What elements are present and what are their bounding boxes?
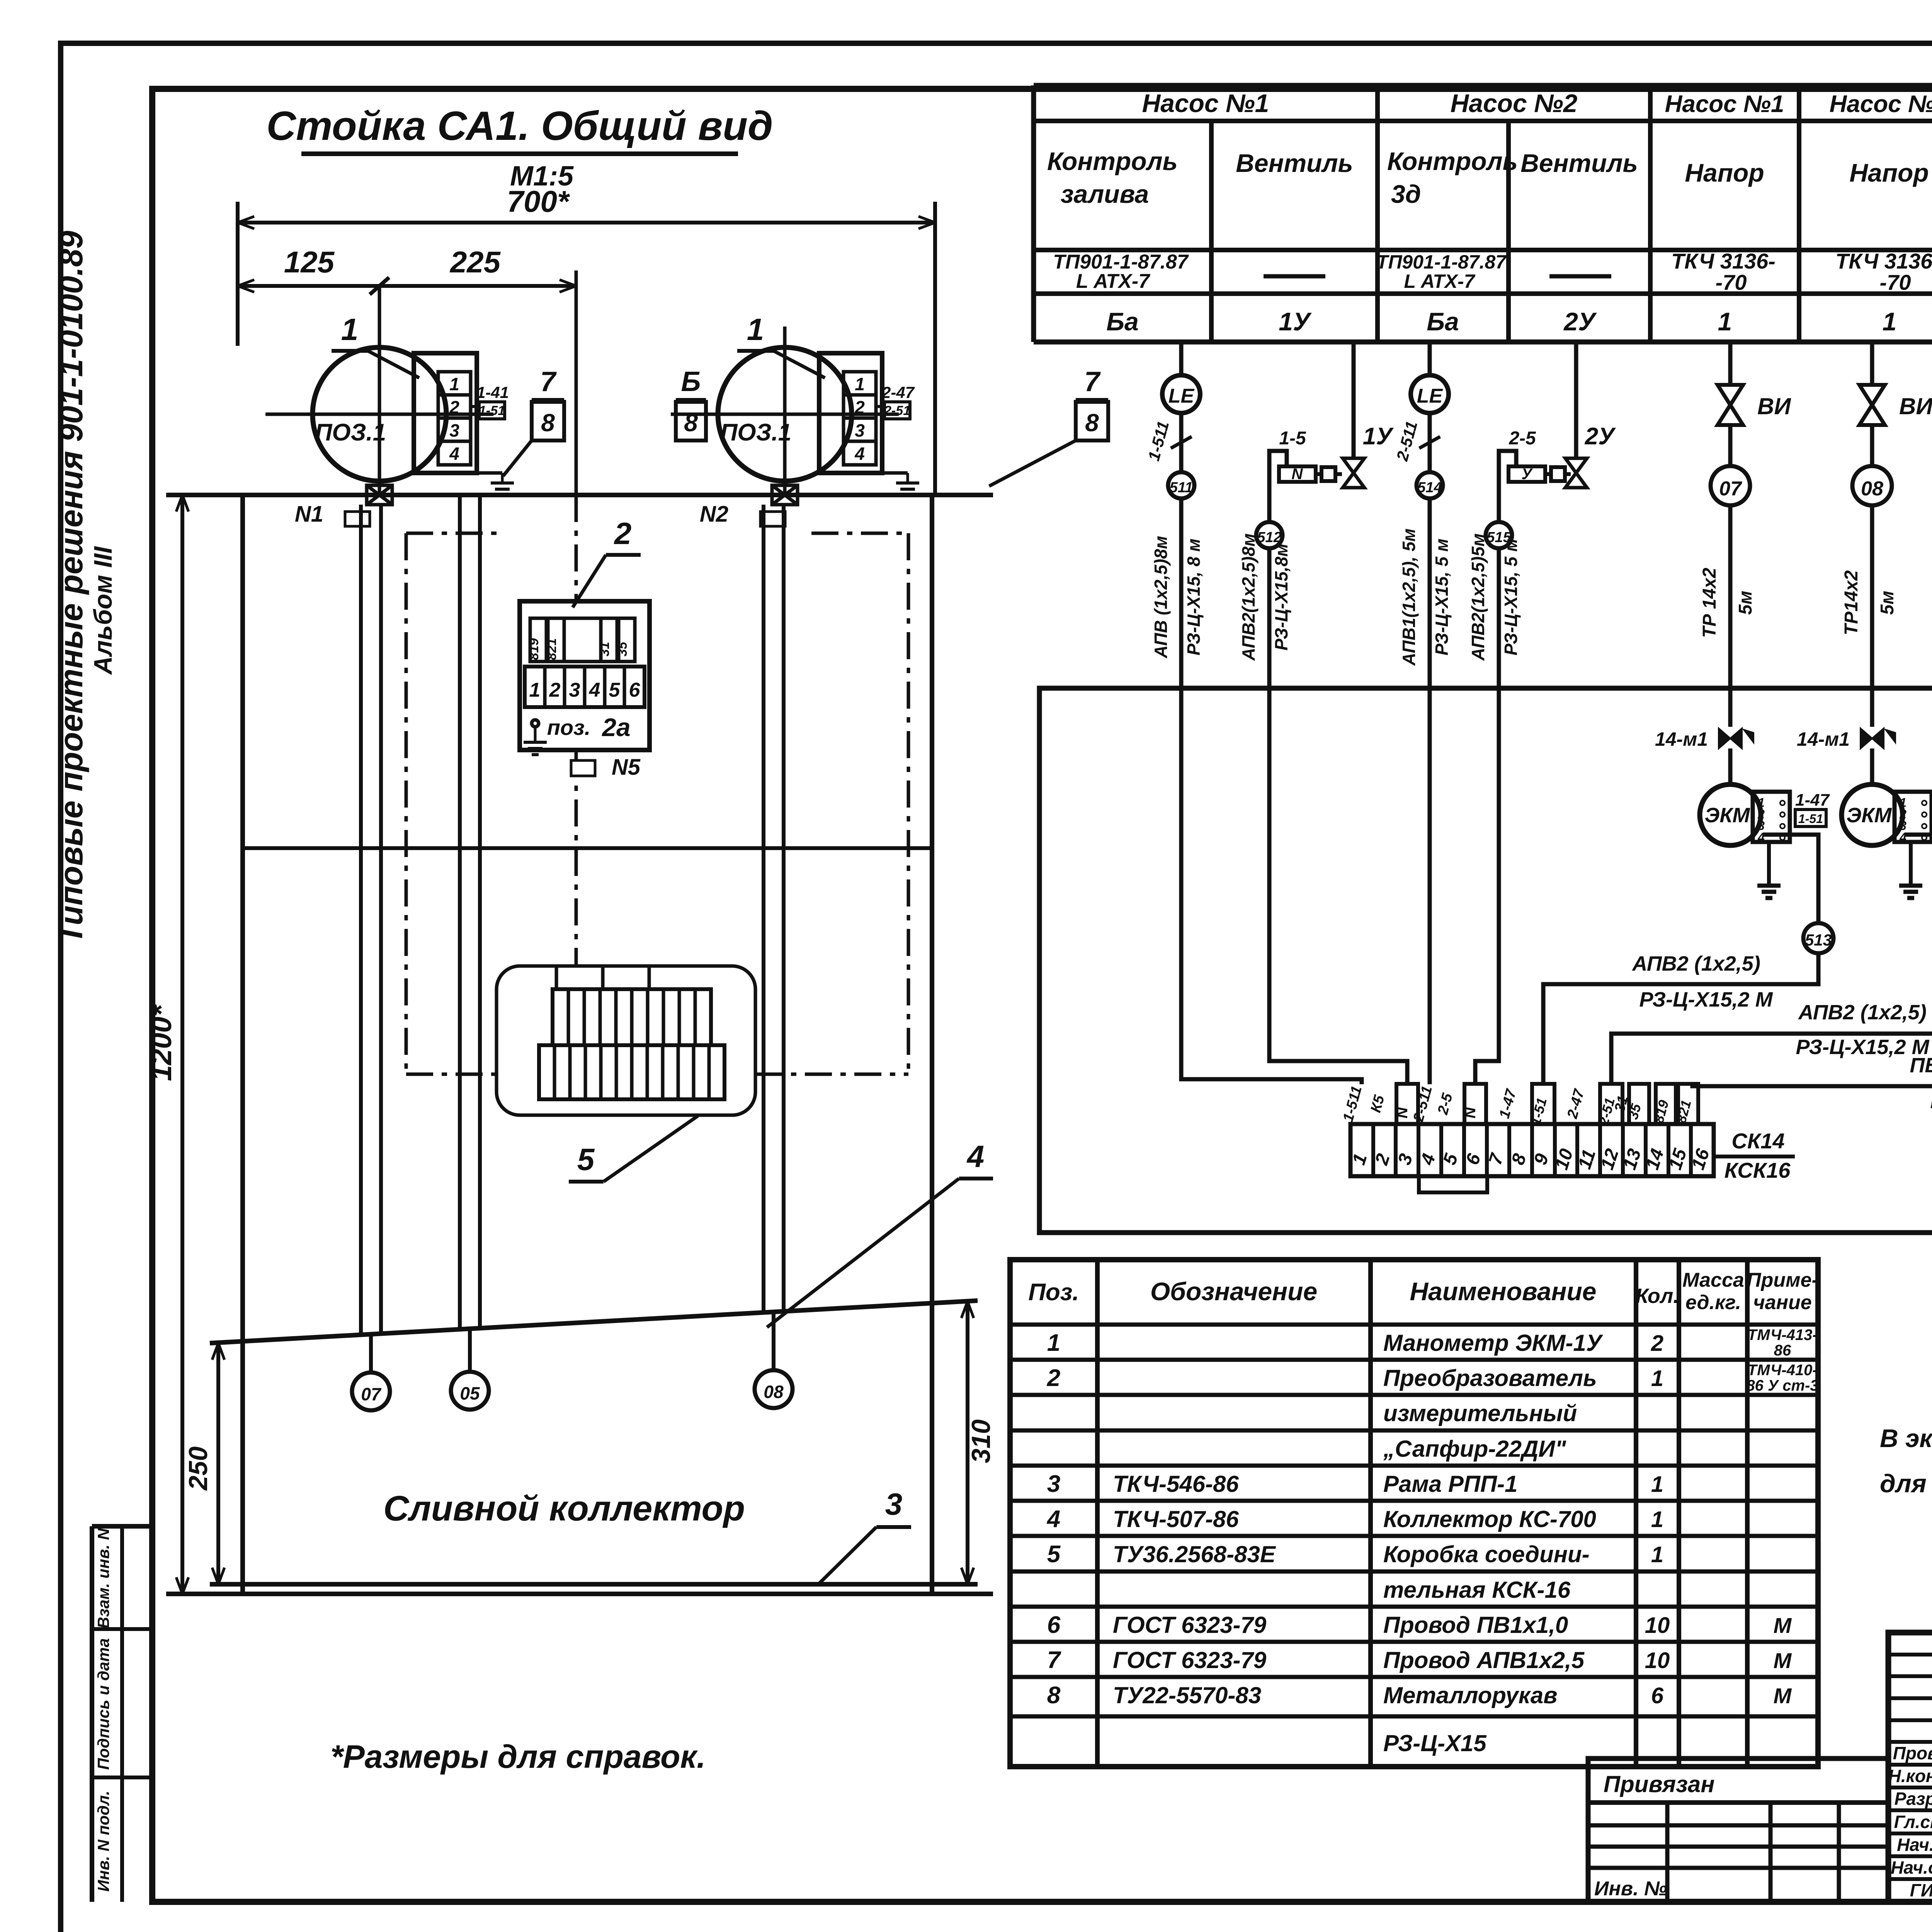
svg-text:ГОСТ 6323-79: ГОСТ 6323-79 [1113,1647,1267,1673]
dash-dot route left [405,533,408,1074]
pressure gauge ЭКМ pos.1 at x=2031 [718,347,852,481]
junction box KCK-16 [497,966,755,1115]
svg-text:АПВ1(1x2,5), 5м: АПВ1(1x2,5), 5м [1399,529,1419,666]
mount symbol [367,485,392,505]
svg-text:ПОЗ.1: ПОЗ.1 [720,419,791,446]
svg-text:В экспликации представлены: В экспликации представлены изделия и мат… [1880,1424,1932,1452]
node 08 [1852,466,1892,505]
svg-text:1: 1 [1651,1542,1663,1567]
gauge terminal box [414,353,477,473]
junction box comb upper [553,989,711,1045]
svg-text:N: N [1394,1107,1411,1118]
svg-text:АПВ2 (1x2,5): АПВ2 (1x2,5) [1798,1001,1927,1024]
callout 7/8 gauge2 [1076,398,1108,402]
gauge ground [477,471,502,475]
svg-text:L АТХ-7: L АТХ-7 [1076,270,1150,293]
svg-text:1: 1 [341,312,359,347]
svg-text:Напор: Напор [1849,158,1929,187]
svg-text:2: 2 [549,679,561,701]
svg-text:5м: 5м [1735,591,1756,615]
svg-text:РЗ-Ц-Х15,8м: РЗ-Ц-Х15,8м [1271,544,1291,651]
svg-text:7: 7 [1084,366,1101,397]
pos2a ground [532,720,539,727]
svg-text:чание: чание [1753,1291,1811,1314]
svg-text:310: 310 [966,1419,996,1463]
svg-text:250: 250 [184,1446,213,1491]
svg-text:ГИП: ГИП [1910,1880,1932,1900]
tap circle 07 [369,1335,373,1372]
svg-text:Вентиль: Вентиль [1236,149,1353,177]
svg-text:6: 6 [1651,1683,1664,1708]
svg-text:LE: LE [1168,385,1195,407]
svg-text:поз.: поз. [547,715,591,740]
svg-text:Металлорукав: Металлорукав [1383,1682,1558,1708]
svg-text:31: 31 [597,642,612,656]
transducer pos.2a box [520,601,650,750]
svg-text:5: 5 [577,1142,595,1177]
svg-text:ЭКМ: ЭКМ [1847,804,1892,827]
svg-text:Насос №2: Насос №2 [1830,91,1932,117]
signature rows [1888,1740,1932,1744]
title block top small grid [1888,1653,1932,1656]
collector top sloped line [210,1301,978,1343]
ЭКМ ground [1909,842,1913,885]
wire 511 to strip [1181,498,1362,1084]
vertical dimension 250 [216,1343,220,1584]
pipe pair middle down [458,495,462,1330]
svg-text:М: М [1774,1613,1792,1638]
node 513 [1803,923,1833,953]
svg-text:8: 8 [541,409,555,437]
svg-text:ТР 14x2: ТР 14x2 [1699,568,1720,638]
svg-text:1: 1 [855,374,865,394]
mount symbol [772,485,798,505]
svg-text:N: N [1292,466,1303,483]
svg-text:-70: -70 [1716,270,1747,294]
parts list table [1010,1260,1818,1767]
wire to node 516 [1905,835,1932,923]
svg-text:Б: Б [681,366,701,397]
svg-text:У: У [1521,466,1533,483]
svg-text:ТКЧ-546-86: ТКЧ-546-86 [1113,1471,1239,1497]
pos2a upper terminal boxes [530,618,546,662]
svg-text:N1: N1 [295,502,323,527]
svg-text:ТМЧ-413-: ТМЧ-413- [1747,1327,1817,1344]
svg-text:14-м1: 14-м1 [1797,728,1850,750]
svg-text:1: 1 [747,312,764,347]
tap circle 08 [772,1313,776,1370]
junction box comb lower [539,1045,724,1099]
svg-text:Нач.отд: Нач.отд [1891,1857,1932,1878]
svg-text:Поз.: Поз. [1028,1279,1079,1306]
svg-text:РЗ-Ц-Х15, 8 м: РЗ-Ц-Х15, 8 м [1184,539,1204,655]
wire 513 to strip [1543,953,1818,1084]
svg-text:ПОЗ.1: ПОЗ.1 [315,419,386,446]
svg-text:3: 3 [449,420,459,440]
svg-text:АПВ2(1x2,5)5м: АПВ2(1x2,5)5м [1468,533,1488,661]
pipe pair gauge1 down [359,505,363,1335]
svg-text:35: 35 [615,641,630,656]
node 511 [1168,472,1194,498]
svg-text:РЗ-Ц-Х15, 5 м: РЗ-Ц-Х15, 5 м [1501,539,1521,655]
svg-text:ТУ22-5570-83: ТУ22-5570-83 [1113,1682,1261,1708]
svg-text:РЗ-Ц-Х15, 5 м: РЗ-Ц-Х15, 5 м [1432,539,1452,655]
wire 515 to strip [1475,548,1499,1084]
node 512 [1256,522,1282,548]
svg-text:ТУ36.2568-83Е: ТУ36.2568-83Е [1113,1541,1276,1567]
svg-text:Наименование: Наименование [1410,1277,1597,1306]
svg-text:АПВ (1x2,5)8м: АПВ (1x2,5)8м [1151,536,1171,659]
svg-text:*Размеры для справок.: *Размеры для справок. [330,1738,706,1775]
svg-text:ТКЧ 3136-: ТКЧ 3136- [1835,249,1932,273]
svg-text:4: 4 [966,1139,985,1173]
node 514 [1417,472,1443,498]
svg-text:ТКЧ-507-86: ТКЧ-507-86 [1113,1506,1239,1532]
svg-text:1: 1 [1651,1507,1663,1532]
svg-text:4: 4 [589,679,600,701]
svg-text:-70: -70 [1880,270,1911,294]
svg-text:07: 07 [361,1384,382,1404]
ЭКМ ground [1767,842,1771,885]
svg-text:АПВ2 (1x2,5): АПВ2 (1x2,5) [1631,952,1760,975]
svg-text:2: 2 [449,397,459,417]
svg-text:1: 1 [449,374,459,394]
wire to node 513 [1763,835,1818,923]
level sensor LE2 [1428,342,1432,375]
callout Б/8 gauge2 [676,398,706,402]
dash-dot route right [907,533,910,1074]
valve 2У [1574,342,1578,458]
svg-text:ТП901-1-87.87: ТП901-1-87.87 [1376,251,1507,273]
svg-text:Гл.спец: Гл.спец [1894,1812,1932,1832]
svg-text:Напор: Напор [1685,158,1764,187]
svg-text:6: 6 [629,679,641,701]
pressure gauge ЭКМ pos.1 at x=982 [313,347,446,481]
svg-text:РЗ-Ц-Х15,2 М: РЗ-Ц-Х15,2 М [1639,988,1773,1011]
svg-text:1-41: 1-41 [476,383,509,401]
terminal strip СК14 [1350,1124,1714,1176]
svg-text:ПВ4 (1x1): ПВ4 (1x1) [1910,1054,1932,1077]
svg-text:Провод АПВ1х2,5: Провод АПВ1х2,5 [1383,1647,1585,1673]
svg-text:М: М [1774,1684,1792,1708]
svg-text:Привязан: Привязан [1604,1771,1714,1797]
svg-text:1-51: 1-51 [1798,812,1823,826]
svg-text:Манометр ЭКМ-1У: Манометр ЭКМ-1У [1383,1330,1604,1356]
svg-text:Преобразователь: Преобразователь [1383,1365,1597,1391]
panel left edge [240,495,245,1594]
svg-text:4: 4 [449,444,459,464]
svg-text:СК14: СК14 [1731,1129,1784,1153]
level sensor LE1 [1179,342,1184,375]
svg-text:измерительный: измерительный [1383,1400,1577,1426]
svg-text:2У: 2У [1585,423,1616,450]
svg-text:Масса: Масса [1682,1269,1744,1291]
valve ВИ at x=4845 [1870,342,1874,385]
svg-text:2-51: 2-51 [884,403,910,418]
valve 14-м1 [1861,728,1884,748]
strip bottom bracket [1419,1176,1487,1192]
panel centerline [575,270,578,495]
branch 2-5 with У box [1499,451,1516,522]
svg-text:1: 1 [1883,307,1897,336]
svg-text:2: 2 [614,516,632,551]
svg-text:АПВ2(1x2,5)8м: АПВ2(1x2,5)8м [1238,533,1259,661]
svg-text:7: 7 [540,366,557,397]
svg-text:3д: 3д [1391,180,1421,208]
stand enclosure box [1039,688,1932,1233]
svg-text:Альбом III: Альбом III [88,546,117,675]
svg-text:Инв. №: Инв. № [1594,1878,1667,1900]
svg-text:1200*: 1200* [145,1004,177,1081]
pos2a terminal row 1-6 [525,667,645,707]
svg-text:2: 2 [1047,1365,1060,1391]
node 515 [1486,522,1512,548]
collector bottom line [210,1582,978,1587]
svg-text:512: 512 [1257,529,1281,546]
valve ВИ at x=4478 [1728,342,1733,385]
bottom-left margin strip [90,1526,94,1902]
svg-text:ТКЧ 3136-: ТКЧ 3136- [1671,249,1776,273]
svg-text:Нач.гр.: Нач.гр. [1897,1835,1932,1855]
svg-text:КСК16: КСК16 [1725,1158,1791,1182]
svg-text:821: 821 [544,638,559,660]
svg-text:1У: 1У [1363,423,1394,450]
svg-text:РЗ-Ц-Х15-2М: РЗ-Ц-Х15-2М [1930,1090,1932,1113]
svg-text:2: 2 [1651,1331,1663,1356]
svg-text:N5: N5 [612,755,641,780]
svg-text:8: 8 [1085,409,1099,437]
svg-text:511: 511 [1170,480,1193,496]
svg-text:ГОСТ 6323-79: ГОСТ 6323-79 [1113,1612,1267,1638]
svg-text:Типовые проектные решения 9: Типовые проектные решения 901-1-0100.89 [53,231,89,944]
svg-text:4: 4 [1899,830,1906,844]
node N5 [571,760,595,776]
svg-text:ТМЧ-410-: ТМЧ-410- [1747,1362,1817,1379]
tap circle 05 [468,1330,472,1372]
svg-text:Ба: Ба [1427,307,1459,336]
svg-text:10: 10 [1645,1613,1670,1638]
svg-text:5: 5 [609,679,621,701]
callout 7/8 gauge1 [532,398,564,402]
svg-text:Подпись и дата: Подпись и дата [94,1638,112,1770]
svg-text:Н.контр.: Н.контр. [1888,1766,1932,1786]
strip name СК14/КСК16 [1716,1155,1795,1158]
svg-text:86: 86 [1774,1342,1791,1359]
vertical dimension 310 [966,1301,969,1584]
svg-text:Разраб.: Разраб. [1895,1789,1932,1809]
title block frame [1888,1633,1932,1902]
svg-text:N: N [1462,1107,1479,1118]
gauge terminal box [819,353,882,473]
svg-text:4: 4 [1046,1506,1060,1532]
svg-text:3: 3 [569,679,580,701]
svg-text:Провод ПВ1х1,0: Провод ПВ1х1,0 [1383,1612,1568,1638]
wire ПВ4 to strip [1692,1007,1932,1086]
svg-text:1: 1 [1047,1330,1060,1356]
svg-text:08: 08 [1861,478,1883,500]
svg-text:700*: 700* [507,184,570,218]
gauge 1 axis [378,286,381,495]
svg-text:6: 6 [1047,1612,1061,1638]
gauge 2 axis [783,327,787,495]
svg-text:2а: 2а [601,713,630,742]
svg-text:Обозначение: Обозначение [1150,1277,1317,1306]
svg-text:1: 1 [1651,1366,1663,1391]
svg-text:ВИ: ВИ [1899,393,1932,419]
svg-text:Коробка соедини-: Коробка соедини- [1383,1541,1590,1567]
svg-text:4: 4 [854,444,865,464]
svg-text:Ба: Ба [1106,307,1138,336]
svg-text:Рама РПП-1: Рама РПП-1 [1383,1471,1518,1497]
svg-text:10: 10 [1645,1648,1670,1673]
svg-text:Контроль: Контроль [1047,147,1178,175]
svg-text:4: 4 [1757,830,1765,844]
manometer ЭКМ at x=4478 [1700,784,1761,845]
svg-text:Инв. N подл.: Инв. N подл. [94,1791,112,1891]
svg-text:М: М [1774,1648,1792,1673]
node 07 [1711,466,1750,505]
junction box stubs [555,966,558,989]
svg-text:ед.кг.: ед.кг. [1685,1291,1741,1314]
svg-text:тельная КСК-16: тельная КСК-16 [1383,1577,1571,1603]
gauge ground [882,471,908,475]
pipe pair gauge2 down [762,505,765,1313]
svg-text:1-51: 1-51 [479,403,505,418]
svg-text:L АТХ-7: L АТХ-7 [1404,270,1476,292]
svg-text:125: 125 [284,245,335,279]
svg-text:Насос №2: Насос №2 [1451,89,1578,117]
base line [166,1592,993,1596]
manometer ЭКМ at x=4845 [1842,784,1903,845]
wire 516 to strip [1611,953,1932,1084]
branch 1-5 with N box [1269,451,1287,522]
svg-text:Вентиль: Вентиль [1520,149,1638,177]
svg-text:1-47: 1-47 [1795,791,1830,810]
panel top line [166,493,993,497]
svg-text:LE: LE [1417,385,1443,407]
svg-text:2У: 2У [1563,307,1597,336]
binding block Привязан [1588,1759,1888,1902]
svg-text:Насос №1: Насос №1 [1142,89,1269,117]
svg-text:5: 5 [1047,1541,1061,1568]
svg-text:7: 7 [1047,1647,1061,1673]
svg-text:86 У ст-3: 86 У ст-3 [1746,1377,1818,1394]
svg-text:2-5: 2-5 [1509,428,1536,449]
svg-text:залива: залива [1061,180,1149,208]
impulse pipe down [1870,505,1874,727]
svg-text:07: 07 [1719,478,1742,500]
svg-text:08: 08 [764,1382,784,1402]
svg-text:3: 3 [1047,1471,1060,1497]
impulse pipe down [1728,505,1733,727]
svg-text:N2: N2 [700,502,728,527]
svg-text:ВИ: ВИ [1757,393,1791,419]
svg-text:Насос №1: Насос №1 [1665,91,1784,117]
svg-text:2-47: 2-47 [881,383,915,401]
panel right edge [930,495,934,1594]
svg-text:1: 1 [529,679,541,701]
svg-text:Провер.: Провер. [1893,1743,1932,1763]
wire 514 to strip [1428,498,1432,1084]
svg-text:14-м1: 14-м1 [1655,728,1708,750]
svg-text:1-5: 1-5 [1279,428,1306,449]
svg-text:513: 513 [1805,931,1832,949]
strip upper boxes [1396,1084,1418,1124]
svg-text:225: 225 [449,245,501,279]
panel mid rail [245,846,930,850]
svg-text:514: 514 [1417,480,1442,496]
svg-text:05: 05 [460,1383,480,1403]
svg-text:1: 1 [1651,1472,1663,1497]
svg-text:Стойка СА1. Общий вид: Стойка СА1. Общий вид [266,103,773,149]
svg-text:Коллектор КС-700: Коллектор КС-700 [1383,1506,1596,1532]
valve 1У [1352,342,1356,458]
svg-text:Кол.: Кол. [1636,1284,1679,1308]
svg-text:3: 3 [885,1487,903,1521]
valve 14-м1 [1719,728,1742,748]
wire 512 to strip [1269,548,1407,1084]
svg-text:ТР14x2: ТР14x2 [1841,570,1862,635]
svg-text:819: 819 [527,638,541,660]
svg-text:Контроль: Контроль [1387,147,1518,175]
svg-text:3: 3 [855,420,865,440]
svg-text:1: 1 [1718,307,1732,336]
svg-text:1У: 1У [1279,307,1312,336]
svg-text:Сливной коллектор: Сливной коллектор [383,1489,745,1528]
svg-text:5м: 5м [1877,591,1898,615]
svg-text:РЗ-Ц-Х15: РЗ-Ц-Х15 [1383,1730,1487,1756]
vertical dimension 1200* [180,495,184,1594]
svg-text:„Сапфир-22ДИ": „Сапфир-22ДИ" [1383,1436,1566,1462]
svg-text:8: 8 [684,409,698,437]
svg-text:Приме-: Приме- [1747,1269,1818,1291]
svg-text:ЭКМ: ЭКМ [1705,804,1750,827]
svg-text:2: 2 [854,397,865,417]
svg-text:8: 8 [1047,1682,1061,1709]
svg-text:для монтажа и установки ст: для монтажа и установки стойки СА1. [1880,1469,1932,1498]
svg-text:Взам. инв. N: Взам. инв. N [94,1528,112,1629]
pump signal table [1034,83,1932,88]
